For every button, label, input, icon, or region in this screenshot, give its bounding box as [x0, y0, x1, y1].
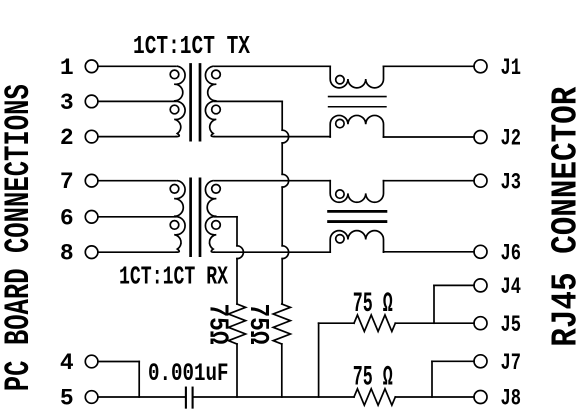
- svg-text:5: 5: [60, 386, 74, 412]
- svg-text:4: 4: [60, 350, 74, 376]
- wire pin3 to T1: [98, 100, 176, 102]
- transformer T1 1CT:1CT TX: [174, 66, 185, 101]
- svg-text:RJ45 CONNECTOR: RJ45 CONNECTOR: [545, 86, 580, 346]
- wire hop over J6 net: [282, 246, 288, 259]
- J1 terminal: [474, 60, 487, 73]
- svg-text:2: 2: [60, 125, 74, 151]
- transformer T2 1CT:1CT RX: [174, 181, 185, 217]
- svg-text:J7: J7: [501, 350, 522, 377]
- wire R4 to J8: [395, 396, 474, 398]
- wire pin8 to T2: [98, 251, 177, 253]
- wire pin4 right: [98, 361, 139, 363]
- J8 terminal: [474, 391, 487, 404]
- pin 2 terminal: [85, 130, 98, 143]
- pin 3 terminal: [85, 95, 98, 108]
- wire R1 to bottom net: [236, 344, 238, 397]
- J2 terminal: [474, 131, 487, 144]
- svg-text:8: 8: [60, 241, 74, 267]
- wire T2 center tap vertical: [236, 217, 238, 246]
- resistor R4 75 ohm (J7/J8): [354, 389, 395, 405]
- wire hop over J2 net: [282, 130, 288, 143]
- svg-text:J1: J1: [501, 55, 522, 82]
- wire T1 center tap vertical: [281, 101, 283, 130]
- wire pin4 down to pin5 net: [138, 362, 140, 398]
- svg-text:J5: J5: [501, 312, 522, 339]
- wire R2 to bottom net: [281, 344, 283, 397]
- wire pin1 to T1: [98, 65, 176, 67]
- svg-text:6: 6: [60, 205, 74, 231]
- wire T2 center tap horizontal: [215, 216, 238, 218]
- wire J5 riser down to bottom net: [318, 323, 320, 397]
- wire J4 branch vertical: [433, 285, 435, 323]
- pin 6 terminal: [85, 211, 98, 224]
- wire choke L2 to J6: [384, 251, 475, 253]
- resistor R3 75 ohm (J4/J5): [354, 315, 395, 331]
- svg-text:3: 3: [60, 90, 74, 116]
- wire hop over J3 net: [282, 174, 288, 187]
- wire pin2 to T1: [98, 136, 177, 138]
- pin 5 terminal: [85, 391, 98, 404]
- svg-text:1CT:1CT RX: 1CT:1CT RX: [119, 261, 228, 291]
- pin 7 terminal: [85, 174, 98, 187]
- svg-text:75Ω: 75Ω: [201, 304, 231, 345]
- svg-text:PC BOARD CONNECTIONS: PC BOARD CONNECTIONS: [0, 84, 39, 391]
- svg-text:0.001uF: 0.001uF: [148, 359, 229, 388]
- svg-text:75 Ω: 75 Ω: [353, 289, 393, 320]
- resistor R2 75 ohm (TX tap): [273, 304, 290, 344]
- common-mode choke L2: [330, 181, 383, 203]
- resistor R1 75 ohm (RX tap): [228, 304, 245, 344]
- J7 terminal: [474, 355, 487, 368]
- wire J5 net from riser: [319, 322, 354, 324]
- wire pin6 to T2: [98, 216, 176, 218]
- wire choke L2 to J3: [384, 180, 475, 182]
- wire pin5 to capacitor: [98, 396, 185, 398]
- svg-text:75Ω: 75Ω: [242, 304, 272, 345]
- wire T2 secondary top to choke L2: [215, 180, 331, 182]
- wire choke L1 to J1: [384, 65, 475, 67]
- wire pin7 to T2: [98, 180, 176, 182]
- svg-text:1CT:1CT TX: 1CT:1CT TX: [133, 31, 250, 61]
- wire T1 secondary bottom to choke L1: [214, 136, 330, 138]
- pin 8 terminal: [85, 246, 98, 259]
- svg-text:75 Ω: 75 Ω: [353, 363, 393, 394]
- wire capacitor to bottom net: [194, 396, 355, 398]
- J5 terminal: [474, 317, 487, 330]
- common-mode choke L1: [330, 66, 383, 88]
- J3 terminal: [474, 174, 487, 187]
- wire T1 center tap horizontal: [215, 100, 283, 102]
- wire T1 secondary top to choke L1: [215, 65, 331, 67]
- svg-text:J4: J4: [501, 274, 522, 301]
- svg-text:J6: J6: [501, 240, 522, 267]
- svg-text:1: 1: [60, 55, 74, 81]
- wire choke L1 to J2: [384, 136, 475, 138]
- pin 1 terminal: [85, 60, 98, 73]
- svg-text:J2: J2: [501, 126, 522, 153]
- J6 terminal: [474, 245, 487, 258]
- wire J4 branch horizontal: [434, 284, 474, 286]
- wire T2 secondary bottom to choke L2: [214, 251, 330, 253]
- svg-text:J8: J8: [501, 386, 522, 413]
- wire R3 to J5: [395, 322, 474, 324]
- wire J7 branch horizontal: [432, 360, 474, 362]
- svg-text:7: 7: [60, 169, 74, 195]
- capacitor C1 0.001uF plates: [185, 388, 187, 408]
- wire hop over J6 net (T2 tap): [237, 246, 243, 259]
- svg-text:J3: J3: [501, 169, 522, 196]
- J4 terminal: [474, 279, 487, 292]
- pin 4 terminal: [85, 355, 98, 368]
- wire J7 branch vertical: [431, 361, 433, 397]
